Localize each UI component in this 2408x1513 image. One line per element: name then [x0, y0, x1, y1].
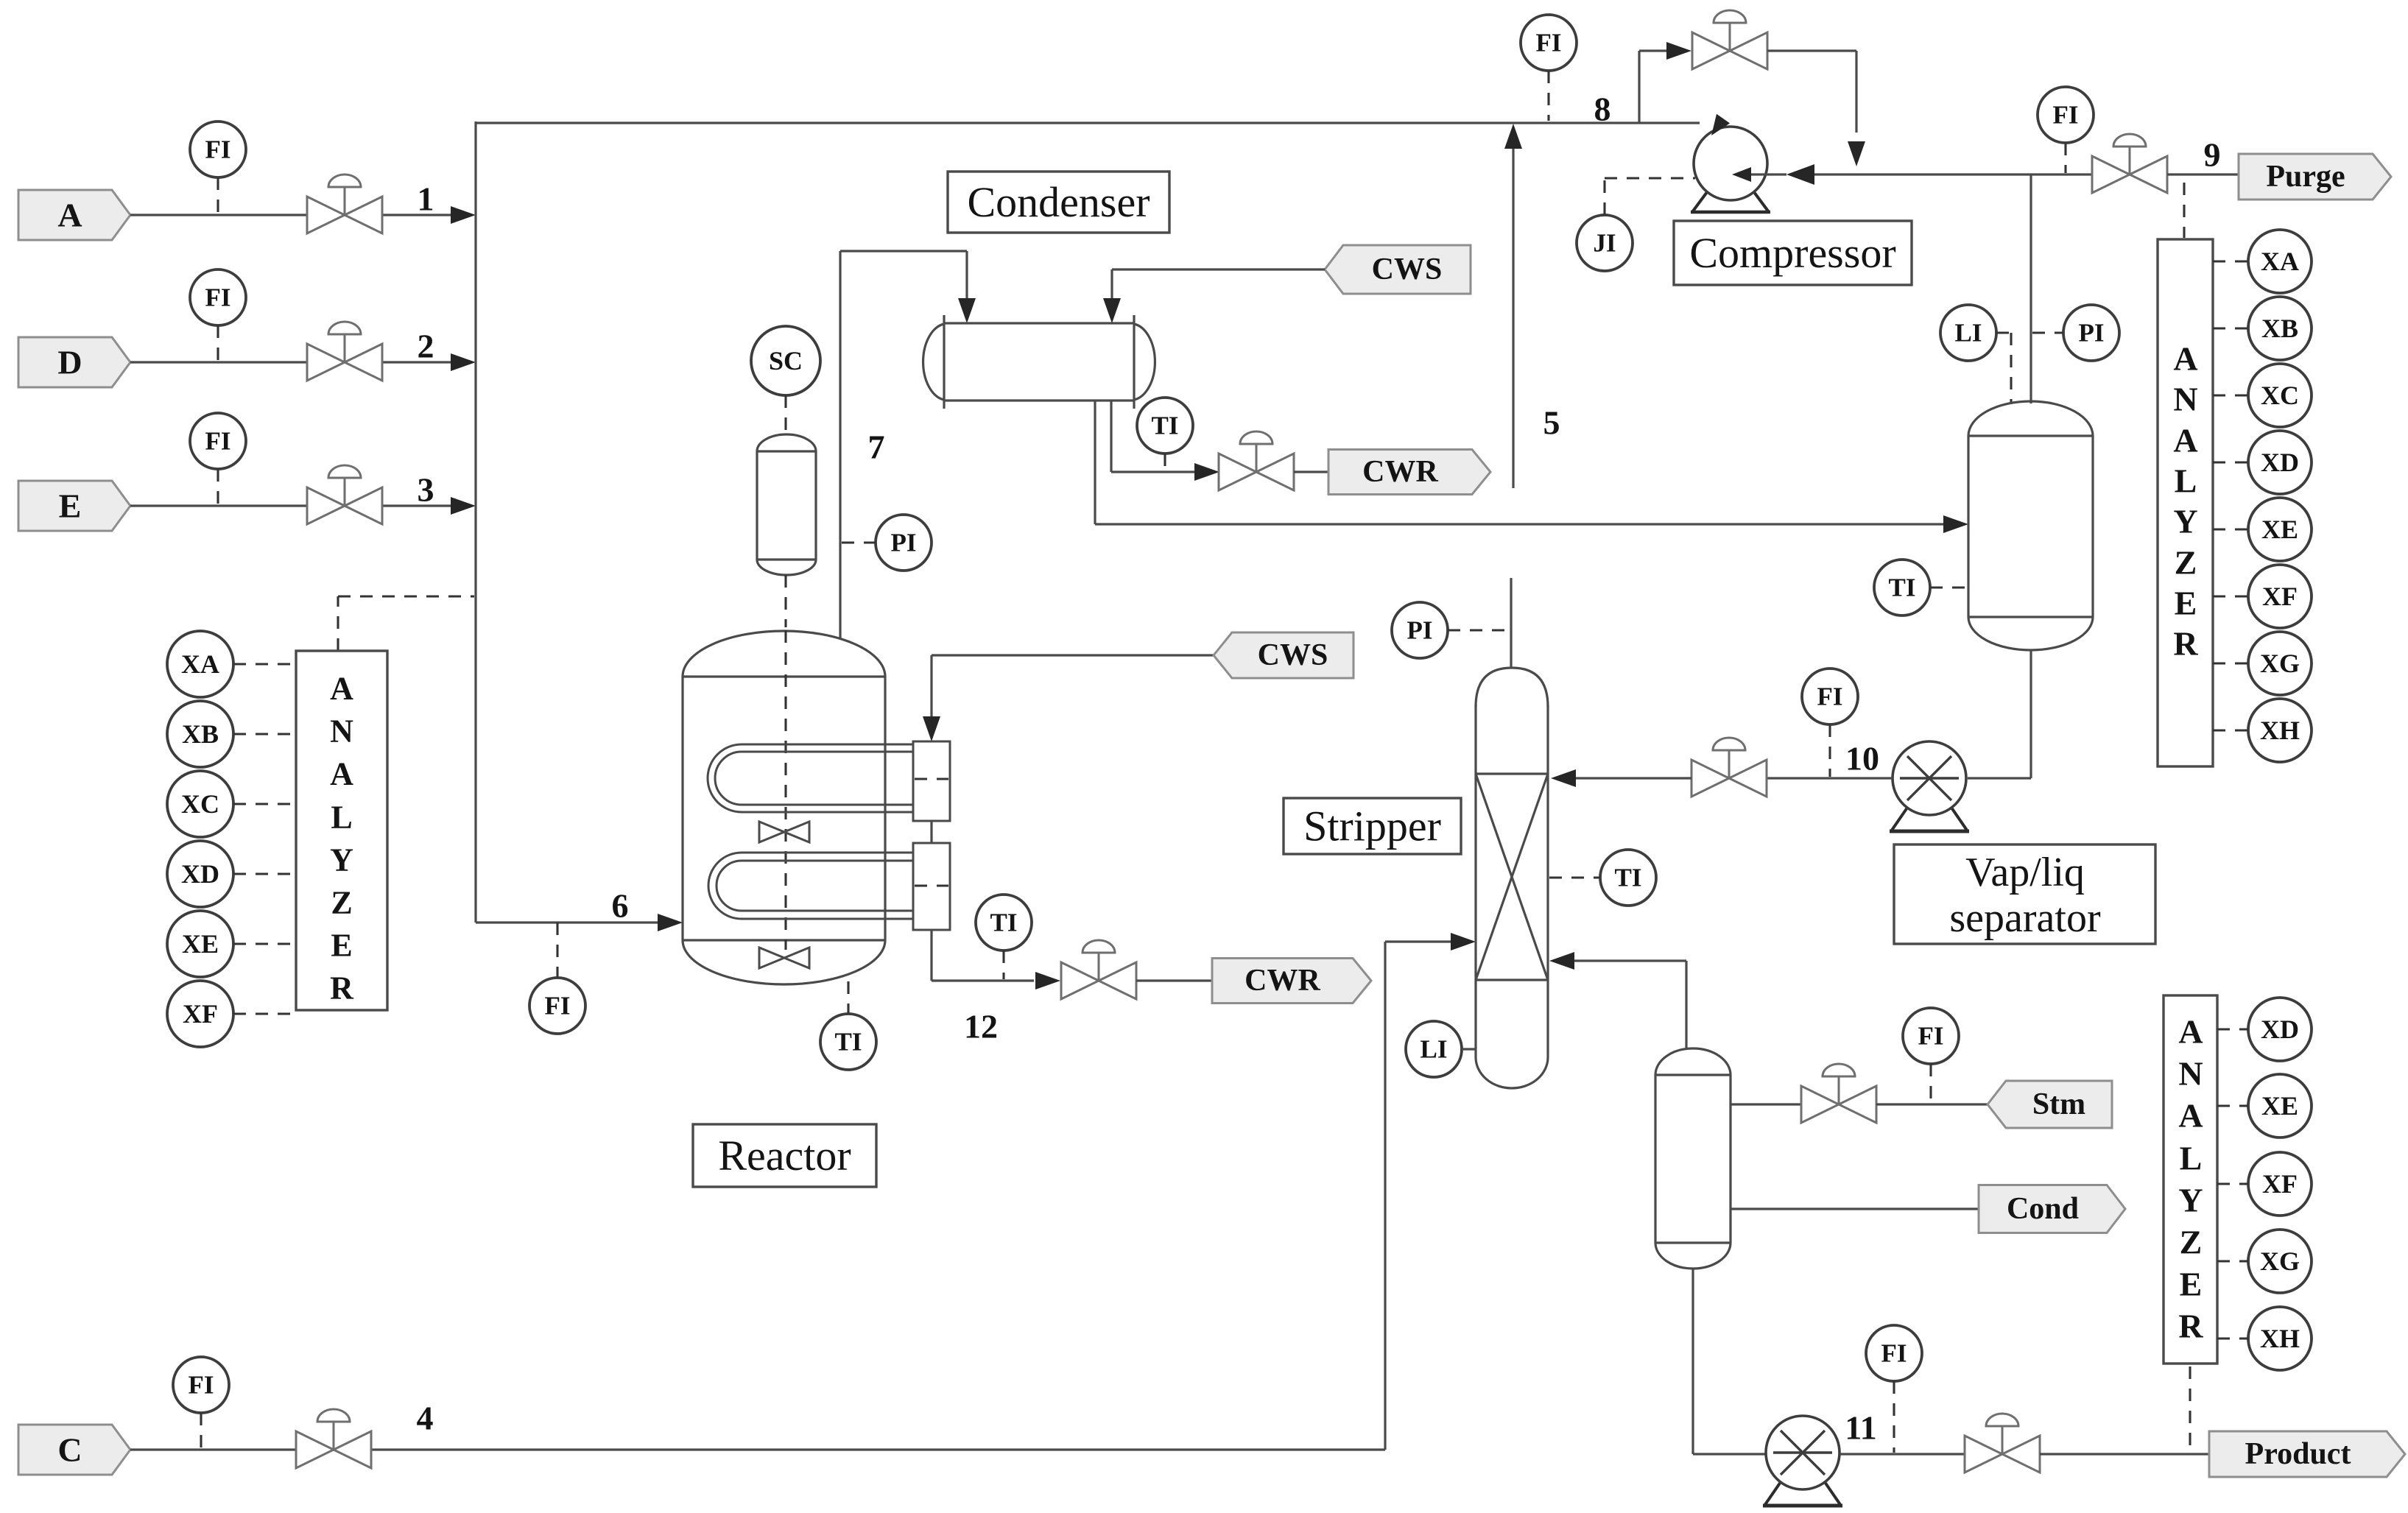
svg-text:E: E [331, 928, 352, 964]
svg-text:XF: XF [183, 999, 218, 1029]
svg-text:FI: FI [545, 992, 571, 1020]
svg-text:XD: XD [181, 859, 219, 889]
svg-text:PI: PI [2079, 319, 2105, 348]
svg-text:SC: SC [769, 346, 803, 375]
svg-text:FI: FI [1918, 1022, 1944, 1051]
svg-text:A: A [2173, 340, 2197, 378]
svg-text:XH: XH [2260, 716, 2300, 745]
svg-text:A: A [2178, 1013, 2203, 1051]
svg-text:FI: FI [205, 135, 231, 164]
svg-text:FI: FI [1881, 1339, 1907, 1368]
svg-text:XE: XE [182, 929, 219, 959]
svg-text:6: 6 [612, 887, 629, 925]
svg-text:XB: XB [2261, 314, 2298, 343]
svg-text:L: L [2175, 462, 2197, 500]
svg-text:XF: XF [2262, 1169, 2298, 1199]
svg-text:N: N [2173, 381, 2197, 418]
svg-text:Condenser: Condenser [967, 178, 1150, 226]
svg-text:1: 1 [418, 180, 434, 218]
svg-text:Reactor: Reactor [718, 1132, 851, 1179]
svg-text:Z: Z [2180, 1224, 2203, 1261]
svg-text:FI: FI [205, 427, 231, 456]
svg-text:10: 10 [1845, 740, 1879, 777]
svg-text:9: 9 [2204, 136, 2221, 174]
svg-text:XD: XD [2261, 1015, 2299, 1044]
svg-text:A: A [57, 197, 82, 234]
svg-text:N: N [2178, 1055, 2203, 1093]
svg-text:TI: TI [990, 909, 1018, 937]
svg-text:XE: XE [2261, 515, 2298, 544]
svg-text:TI: TI [1152, 412, 1179, 440]
svg-text:CWS: CWS [1372, 253, 1443, 286]
svg-text:12: 12 [964, 1008, 998, 1045]
svg-text:Z: Z [2175, 544, 2197, 582]
svg-text:Stm: Stm [2032, 1087, 2085, 1121]
svg-text:FI: FI [2053, 101, 2079, 130]
svg-text:XE: XE [2261, 1091, 2298, 1121]
svg-text:Stripper: Stripper [1303, 803, 1441, 850]
svg-text:R: R [2173, 625, 2198, 663]
svg-text:A: A [2178, 1097, 2203, 1135]
svg-text:11: 11 [1845, 1409, 1876, 1447]
svg-text:R: R [330, 970, 354, 1006]
svg-text:TI: TI [835, 1028, 862, 1057]
svg-text:Y: Y [330, 842, 353, 878]
svg-text:PI: PI [1407, 616, 1433, 645]
svg-text:Y: Y [2173, 503, 2197, 540]
svg-text:Y: Y [2178, 1182, 2203, 1219]
svg-text:D: D [57, 344, 82, 381]
svg-text:XH: XH [2260, 1324, 2300, 1353]
svg-text:Purge: Purge [2266, 160, 2345, 194]
svg-text:N: N [330, 713, 353, 750]
svg-text:5: 5 [1543, 404, 1560, 442]
svg-text:FI: FI [1536, 29, 1562, 57]
svg-text:LI: LI [1420, 1035, 1448, 1064]
svg-text:Product: Product [2245, 1437, 2351, 1471]
svg-text:CWR: CWR [1245, 964, 1320, 998]
svg-text:XA: XA [181, 649, 219, 679]
svg-text:2: 2 [418, 328, 434, 365]
svg-text:LI: LI [1955, 319, 1982, 348]
svg-text:PI: PI [891, 529, 917, 557]
svg-text:XG: XG [2260, 649, 2300, 678]
svg-text:Vap/liq: Vap/liq [1965, 850, 2085, 895]
svg-text:TI: TI [1889, 574, 1916, 602]
svg-text:E: E [2175, 585, 2197, 622]
svg-text:A: A [330, 671, 353, 707]
svg-text:XC: XC [2261, 381, 2299, 410]
svg-text:8: 8 [1594, 91, 1611, 128]
svg-text:3: 3 [418, 471, 434, 509]
svg-text:XG: XG [2260, 1246, 2300, 1276]
svg-text:A: A [2173, 422, 2197, 459]
svg-text:E: E [2180, 1266, 2203, 1303]
svg-text:XA: XA [2261, 247, 2299, 276]
svg-text:R: R [2178, 1308, 2203, 1345]
svg-text:4: 4 [417, 1400, 434, 1437]
svg-text:XB: XB [182, 719, 219, 749]
svg-text:TI: TI [1615, 864, 1642, 892]
svg-text:XF: XF [2262, 582, 2298, 611]
svg-text:CWR: CWR [1362, 455, 1438, 489]
svg-text:FI: FI [1817, 683, 1843, 711]
svg-text:XC: XC [181, 789, 219, 819]
svg-text:separator: separator [1949, 895, 2101, 941]
svg-text:JI: JI [1593, 229, 1616, 258]
svg-text:Z: Z [331, 885, 352, 921]
svg-text:Cond: Cond [2007, 1192, 2079, 1226]
svg-text:7: 7 [868, 428, 885, 466]
svg-text:L: L [2180, 1140, 2203, 1177]
svg-text:FI: FI [205, 283, 231, 312]
svg-text:A: A [330, 756, 353, 792]
svg-text:FI: FI [189, 1371, 214, 1400]
svg-text:E: E [59, 487, 82, 525]
svg-text:L: L [331, 800, 352, 836]
svg-text:CWS: CWS [1258, 638, 1328, 672]
svg-text:XD: XD [2261, 448, 2299, 477]
svg-text:Compressor: Compressor [1689, 229, 1895, 277]
svg-text:C: C [57, 1431, 82, 1469]
